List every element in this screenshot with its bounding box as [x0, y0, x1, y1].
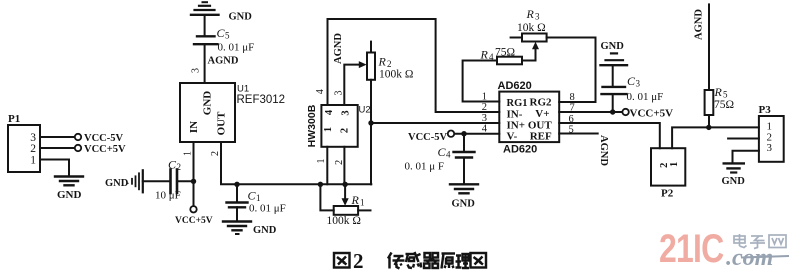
svg-text:GND: GND: [452, 199, 476, 210]
svg-text:3: 3: [767, 142, 773, 154]
wire top ground to C5: [204, 16, 206, 36]
svg-text:2: 2: [353, 249, 364, 273]
svg-text:3: 3: [191, 68, 202, 73]
svg-text:2: 2: [482, 102, 487, 113]
svg-text:21IC: 21IC: [659, 225, 724, 270]
svg-text:7: 7: [570, 103, 575, 114]
svg-text:1: 1: [30, 155, 36, 167]
wire U2 pin3 to AGND / R2 wiper: [344, 65, 359, 105]
svg-text:2: 2: [177, 162, 182, 172]
resistor R4: [497, 57, 522, 65]
svg-text:10 μF: 10 μF: [155, 190, 181, 202]
svg-text:0. 01 μF: 0. 01 μF: [218, 42, 255, 54]
capacitor C4: [463, 134, 465, 151]
svg-text:GND: GND: [253, 225, 277, 236]
svg-text:3: 3: [636, 79, 641, 89]
wire VCC-5V to AD620 pin4: [454, 133, 499, 135]
connector P3: [759, 116, 784, 162]
svg-text:0. 01 μF: 0. 01 μF: [627, 91, 664, 103]
svg-text:RG2: RG2: [530, 97, 553, 109]
wire P1 pin1 to ground: [40, 160, 69, 176]
glyph tu2: [471, 253, 487, 268]
wire U2 pin2 down: [343, 147, 345, 185]
wire IN+ to AD620 pin3: [371, 122, 499, 124]
node junction C1: [234, 182, 239, 187]
svg-text:R: R: [526, 7, 535, 21]
node VCC+5V terminal (AD620): [622, 109, 628, 115]
wire C5 to U1 pin3: [204, 45, 206, 83]
caption: 图 2 传感器原理图: [334, 249, 486, 273]
wire R3 right to AD620 pin8: [547, 38, 596, 103]
connector P2: [651, 148, 685, 185]
wire P3 pin2 stub: [728, 138, 759, 140]
svg-text:10k Ω: 10k Ω: [517, 22, 546, 34]
wire U2 pin4 to top rail to AD620 IN-: [328, 19, 500, 112]
svg-text:2: 2: [387, 59, 392, 69]
wire R1 right stub: [358, 209, 370, 211]
node junction R5: [706, 125, 711, 130]
svg-text:AGND: AGND: [333, 33, 344, 64]
wire U2 pin1 down: [326, 147, 328, 185]
svg-text:R: R: [351, 193, 360, 207]
svg-text:GND: GND: [105, 178, 129, 189]
resistor R2 (trimmer): [370, 42, 372, 53]
svg-text:1: 1: [669, 162, 680, 167]
wire GND to C2: [143, 180, 170, 182]
wire AD620 pin1 to R4: [463, 61, 500, 102]
wire P2 pin1 up to output rail: [672, 127, 759, 148]
resistor R5: [708, 4, 710, 90]
svg-text:VCC+5V: VCC+5V: [630, 108, 674, 120]
node junction R1 left: [318, 182, 323, 187]
resistor R1: [334, 206, 358, 215]
resistor R3 (trimmer): [511, 37, 522, 39]
svg-text:100k Ω: 100k Ω: [327, 215, 361, 227]
svg-text:AD620: AD620: [503, 144, 537, 156]
svg-text:2: 2: [30, 143, 36, 155]
svg-text:HW300B: HW300B: [306, 104, 318, 147]
node junction C2/U1 pin1: [191, 179, 196, 184]
svg-text:OUT: OUT: [216, 111, 228, 136]
svg-text:VCC+5V: VCC+5V: [84, 144, 126, 155]
node junction C4: [461, 131, 466, 136]
svg-text:.: .: [127, 177, 129, 186]
ground (above C3): [601, 64, 628, 66]
wire P3 pin3 to ground: [733, 151, 759, 163]
svg-text:VCC-5V: VCC-5V: [408, 132, 447, 143]
glyph tu1: [334, 253, 350, 268]
logo dianziwang: [734, 234, 786, 249]
svg-text:1: 1: [316, 159, 327, 164]
wire R1 wiper arrow: [344, 184, 346, 199]
node VCC-5V terminal: [75, 134, 81, 140]
svg-text:REF: REF: [530, 131, 552, 143]
ground (C4): [450, 183, 478, 185]
ground GND (signal, left of C2): [131, 179, 133, 184]
svg-text:3: 3: [535, 12, 540, 22]
svg-text:R: R: [378, 55, 387, 69]
svg-text:IN: IN: [188, 121, 200, 133]
svg-text:100k Ω: 100k Ω: [379, 69, 413, 81]
capacitor C1: [236, 184, 238, 201]
wire R4 right to R3 wiper: [522, 49, 536, 61]
wire AD620 pin7 to VCC+5V: [559, 111, 622, 113]
wire AD620 pin5 REF stub: [559, 133, 598, 135]
wire U1 pin2 OUT to rail: [221, 142, 371, 184]
svg-text:GND: GND: [202, 91, 214, 116]
wire C2 to U1 pin1: [177, 180, 194, 182]
svg-text:IN-: IN-: [507, 109, 523, 121]
svg-text:VCC+5V: VCC+5V: [175, 216, 213, 226]
node VCC+5V terminal: [75, 145, 81, 151]
svg-text:P3: P3: [759, 104, 772, 116]
wire AD620 pin6 OUT to P2: [559, 123, 660, 148]
svg-text:5: 5: [225, 31, 230, 41]
svg-text:P1: P1: [8, 113, 20, 125]
svg-text:8: 8: [570, 92, 575, 103]
svg-text:GND: GND: [601, 41, 625, 52]
svg-text:GND: GND: [229, 12, 253, 23]
svg-text:0. 01 μF: 0. 01 μF: [249, 203, 286, 215]
wire U1 pin1 down to VCC+5V: [193, 142, 195, 206]
op-amp U3 AD620: [499, 92, 559, 143]
sensor U2 HW300B: [321, 105, 357, 147]
glyph gan: [406, 252, 422, 268]
svg-text:AGND: AGND: [694, 9, 705, 40]
ground GND (top, above C5): [191, 14, 219, 16]
svg-text:GND: GND: [57, 189, 82, 201]
svg-text:1: 1: [183, 151, 194, 156]
svg-text:VCC-5V: VCC-5V: [84, 133, 123, 144]
svg-text:5: 5: [723, 90, 728, 100]
svg-text:4: 4: [489, 52, 494, 62]
svg-text:3: 3: [341, 110, 352, 115]
wire P1 pin3 to VCC-5V: [40, 136, 75, 138]
glyph chuan: [388, 253, 405, 269]
svg-text:3: 3: [482, 113, 487, 124]
svg-text:U1: U1: [237, 84, 249, 95]
glyph qi: [424, 253, 440, 268]
capacitor C5: [197, 35, 215, 37]
svg-text:R: R: [480, 48, 489, 62]
ground (C1): [223, 220, 251, 222]
svg-text:3: 3: [334, 91, 345, 96]
ground (P3): [724, 162, 744, 164]
node VCC-5V terminal (AD620): [448, 131, 454, 137]
svg-text:75Ω: 75Ω: [495, 47, 515, 59]
logo 21IC.com: [659, 225, 789, 271]
ground (P1): [55, 175, 83, 177]
svg-text:AD620: AD620: [498, 80, 532, 92]
svg-text:R: R: [714, 85, 723, 99]
node VCC+5V terminal (below C2): [190, 206, 196, 212]
capacitor C2: [169, 170, 172, 194]
svg-text:5: 5: [569, 125, 574, 136]
voltage reference U1 REF3012: [180, 83, 235, 142]
svg-text:4: 4: [446, 150, 451, 160]
node junction R2/IN+: [368, 120, 373, 125]
wire R1 left leg: [320, 184, 333, 210]
connector P1: [8, 125, 40, 172]
node junction R1 wiper: [342, 182, 347, 187]
svg-text:2: 2: [334, 160, 345, 165]
svg-text:P2: P2: [661, 188, 674, 200]
glyph yuan: [442, 254, 456, 269]
svg-text:AGND: AGND: [598, 135, 609, 166]
svg-text:2: 2: [340, 128, 351, 133]
svg-text:REF3012: REF3012: [237, 94, 286, 106]
glyph li: [456, 254, 470, 268]
svg-text:V+: V+: [535, 108, 549, 120]
svg-text:1: 1: [323, 127, 334, 132]
svg-text:1: 1: [256, 193, 261, 203]
svg-text:0. 01 μ F: 0. 01 μ F: [405, 161, 445, 173]
svg-text:U2: U2: [359, 105, 371, 116]
node junction C3: [610, 109, 615, 114]
svg-text:75Ω: 75Ω: [714, 99, 734, 111]
svg-text:AGND: AGND: [208, 56, 239, 67]
svg-text:1: 1: [360, 198, 365, 208]
svg-text:RG1: RG1: [507, 98, 528, 109]
wire P1 pin2 to VCC+5V: [40, 147, 75, 149]
svg-text:4: 4: [324, 109, 335, 115]
svg-text:4: 4: [482, 124, 488, 135]
svg-text:2: 2: [210, 151, 221, 156]
capacitor C3: [612, 95, 614, 112]
svg-text:V-: V-: [507, 131, 518, 143]
svg-text:4: 4: [315, 89, 326, 94]
svg-text:GND: GND: [722, 176, 746, 187]
svg-text:1: 1: [482, 92, 487, 103]
svg-text:6: 6: [569, 114, 574, 125]
